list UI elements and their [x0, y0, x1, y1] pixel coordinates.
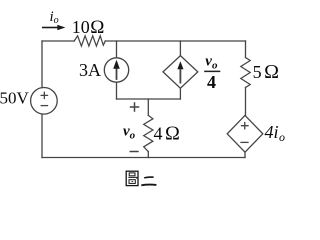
arrow inside vo/4 source: [179, 68, 181, 83]
svg-text:10Ω: 10Ω: [72, 17, 105, 38]
wire below 3A source: [116, 82, 118, 99]
dependent current source vo/4 diamond: [163, 56, 198, 89]
minus sign inside 50V source: [41, 105, 47, 107]
plus sign inside 4io source: [242, 123, 249, 129]
io current arrow: [42, 27, 58, 29]
wire right vertical below 5-ohm resistor to diamond: [245, 88, 247, 116]
svg-text:5Ω: 5Ω: [253, 61, 279, 83]
wire right vertical above 5-ohm resistor: [245, 41, 247, 58]
arrowhead of vo/4 source arrow: [177, 61, 183, 69]
minus sign below vo label: [130, 151, 138, 153]
wire below vo/4 diamond: [179, 88, 181, 99]
wire from 4io diamond bottom to bottom wire: [244, 152, 246, 157]
svg-text:4Ω: 4Ω: [154, 123, 180, 145]
wire from top down to 3A source: [116, 41, 118, 58]
arrowhead of 3A source arrow: [113, 60, 120, 69]
wire from top down to vo/4 source: [179, 41, 181, 56]
svg-text:io: io: [50, 9, 59, 26]
wire below 4-ohm resistor: [147, 152, 149, 158]
wire top left corner to 10-ohm resistor: [42, 40, 74, 42]
wire left vertical below 50V source: [41, 114, 43, 157]
svg-text:vo: vo: [205, 53, 218, 71]
resistor R 5ohm zigzag: [241, 58, 250, 88]
caption glyph tu (figure): [126, 171, 138, 185]
svg-text:4io: 4io: [265, 122, 286, 144]
fraction bar of vo/4: [204, 70, 220, 72]
arrow inside 3A source: [116, 66, 118, 79]
caption glyph er (two): [141, 177, 156, 185]
resistor R 10ohm zigzag: [74, 36, 105, 46]
minus sign inside 4io source: [241, 141, 248, 143]
wire top from resistor to right corner: [105, 40, 245, 42]
svg-text:3A: 3A: [79, 60, 101, 80]
plus sign above vo label: [131, 103, 139, 111]
wire left vertical above 50V source: [41, 41, 43, 88]
svg-text:4: 4: [207, 72, 216, 92]
dependent voltage source 4io diamond: [227, 115, 263, 152]
svg-text:50V: 50V: [0, 88, 30, 107]
plus sign inside 50V source: [41, 92, 47, 98]
wire from middle down to 4-ohm resistor: [147, 99, 149, 115]
svg-text:vo: vo: [123, 123, 136, 141]
wire bottom horizontal: [42, 157, 245, 159]
current source I1 3A circle: [104, 58, 128, 82]
voltage source V1 50V circle: [31, 88, 58, 115]
wire middle horizontal between source bottoms: [117, 98, 181, 100]
resistor R 4ohm zigzag: [144, 115, 153, 151]
